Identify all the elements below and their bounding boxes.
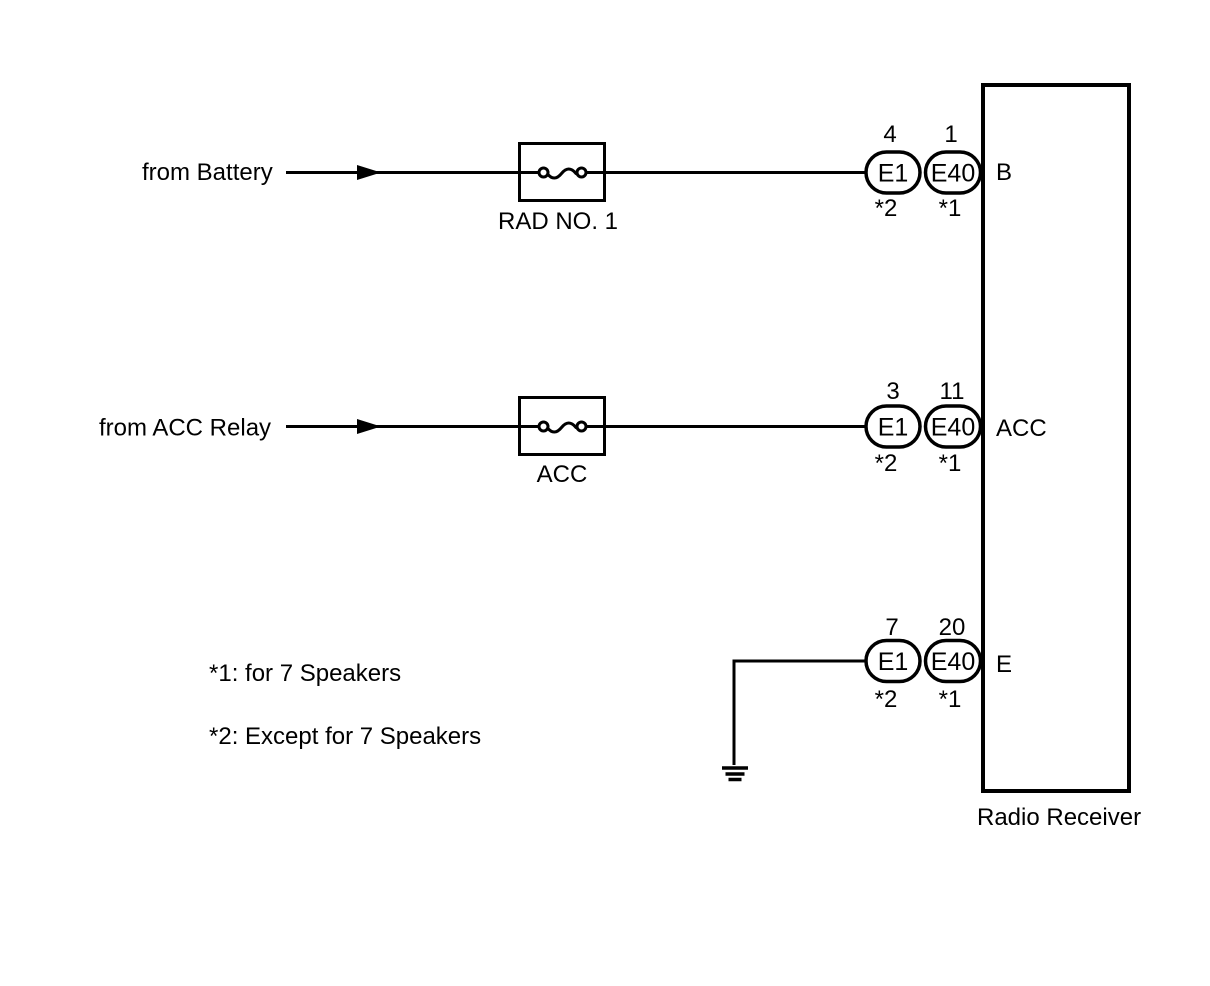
svg-text:E40: E40 bbox=[931, 160, 975, 188]
svg-text:Radio Receiver: Radio Receiver bbox=[977, 804, 1141, 831]
svg-text:B: B bbox=[996, 159, 1012, 186]
svg-text:E1: E1 bbox=[878, 648, 909, 676]
connector E40 pin 1 bbox=[926, 121, 981, 222]
svg-text:*1: *1 bbox=[939, 450, 962, 477]
fuse ACC bbox=[520, 398, 605, 489]
svg-text:*2: *2 bbox=[875, 195, 898, 222]
svg-text:*1: *1 bbox=[939, 686, 962, 713]
wire bbox=[286, 171, 544, 174]
svg-text:RAD NO. 1: RAD NO. 1 bbox=[498, 208, 618, 235]
svg-text:3: 3 bbox=[886, 378, 899, 405]
svg-text:E1: E1 bbox=[878, 414, 909, 442]
wire bbox=[734, 660, 866, 663]
arrow bbox=[357, 419, 381, 434]
wire bbox=[286, 425, 544, 428]
connector E1 pin 7 bbox=[866, 614, 920, 713]
svg-text:ACC: ACC bbox=[996, 415, 1047, 442]
ground bbox=[722, 768, 748, 780]
svg-text:E40: E40 bbox=[931, 648, 975, 676]
wire bbox=[586, 171, 867, 174]
arrow bbox=[357, 165, 381, 180]
svg-text:1: 1 bbox=[944, 121, 957, 148]
connector E40 pin 20 bbox=[926, 614, 981, 713]
svg-text:11: 11 bbox=[940, 378, 965, 405]
svg-text:*2: Except for 7 Speakers: *2: Except for 7 Speakers bbox=[209, 723, 481, 750]
radio receiver box bbox=[977, 85, 1141, 831]
fuse RAD NO. 1 bbox=[498, 144, 618, 236]
connector E1 pin 4 bbox=[866, 121, 920, 222]
wire bbox=[586, 425, 867, 428]
svg-text:ACC: ACC bbox=[537, 461, 588, 488]
svg-text:from Battery: from Battery bbox=[142, 159, 273, 186]
svg-text:from ACC Relay: from ACC Relay bbox=[99, 415, 271, 442]
svg-text:20: 20 bbox=[939, 614, 966, 641]
svg-text:*2: *2 bbox=[875, 450, 898, 477]
svg-text:*1: for 7 Speakers: *1: for 7 Speakers bbox=[209, 660, 401, 687]
svg-text:E1: E1 bbox=[878, 160, 909, 188]
svg-text:E40: E40 bbox=[931, 414, 975, 442]
svg-text:*1: *1 bbox=[939, 195, 962, 222]
connector E1 pin 3 bbox=[866, 378, 920, 477]
svg-text:E: E bbox=[996, 651, 1012, 678]
svg-text:7: 7 bbox=[885, 614, 898, 641]
svg-text:4: 4 bbox=[883, 121, 896, 148]
svg-text:*2: *2 bbox=[875, 686, 898, 713]
connector E40 pin 11 bbox=[926, 378, 981, 477]
wire bbox=[733, 660, 736, 766]
